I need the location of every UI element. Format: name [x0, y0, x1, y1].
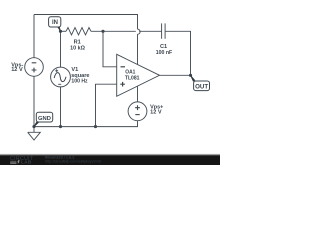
node IN junction [59, 30, 62, 33]
op-amp minus mark [121, 66, 126, 68]
svg-text:12 V: 12 V [11, 67, 23, 73]
svg-text:C1: C1 [160, 44, 167, 50]
ground symbol [28, 127, 41, 140]
svg-text:12 V: 12 V [150, 110, 162, 116]
wire op-amp V- pin (bottom) to Vps+ top [137, 86, 139, 102]
wire R1 right to junction and capacitor left (gap at hop) [91, 30, 136, 32]
svg-text:TL081: TL081 [125, 76, 140, 82]
V1 minus mark [58, 83, 61, 85]
wire ground rail [34, 121, 138, 127]
node V1/ground junction [59, 125, 62, 128]
label box OUT [194, 81, 210, 91]
op-amp OA1 triangle [117, 54, 160, 96]
label leader IN [57, 26, 61, 32]
wire V1 bottom to ground rail [60, 87, 62, 127]
node output junction [189, 74, 192, 77]
node R1/C1/minus junction [101, 30, 104, 33]
svg-text:10 kΩ: 10 kΩ [70, 45, 85, 51]
V1 plus mark [55, 69, 58, 72]
wire left rail upper (top rail to Vps- top terminal) [33, 15, 35, 58]
node plus/ground junction [94, 125, 97, 128]
wire hop (vertical hops over horizontal at x=137.5,y=31.3) [138, 29, 141, 34]
svg-text:OUT: OUT [195, 83, 208, 90]
wire minus-input branch [103, 31, 117, 67]
capacitor C1 plates [162, 23, 166, 38]
voltage source Vps+ circle [128, 102, 147, 121]
wire IN node to V1 top [60, 31, 62, 67]
resistor R1 [66, 28, 91, 35]
svg-text:LAB: LAB [21, 160, 32, 166]
wire C1 right lead, down to output node [165, 31, 190, 75]
svg-text:100 nF: 100 nF [156, 50, 173, 56]
wire plus-input branch to ground [96, 84, 117, 126]
Vps- polarity marks [32, 62, 37, 64]
svg-text:GND: GND [38, 116, 51, 122]
V1 waveform glyph [54, 73, 66, 82]
wire top rail from Vps- to op-amp V+ pin [34, 15, 138, 30]
svg-text:100 Hz: 100 Hz [71, 79, 87, 85]
wire op-amp V+ pin lower part [137, 34, 139, 64]
junction dots [32, 30, 192, 129]
source V1 circle [51, 67, 71, 87]
op-amp plus mark [120, 82, 125, 87]
wire IN node to R1 left [61, 30, 67, 32]
voltage source Vps- circle [25, 58, 44, 77]
label box IN [49, 17, 61, 27]
svg-text:http://circuitlab.com/c8rykcyv: http://circuitlab.com/c8rykcyv2m3 [45, 159, 101, 163]
Vps+ polarity marks [135, 105, 140, 110]
svg-text:IN: IN [52, 20, 58, 26]
label leader OUT [190, 75, 195, 82]
node GND leader junction [32, 125, 35, 128]
wire left rail lower (Vps- bottom to ground node) [33, 76, 35, 126]
label box GND [36, 112, 52, 122]
wire op-amp output to node [160, 74, 191, 76]
label leader GND [34, 121, 39, 127]
